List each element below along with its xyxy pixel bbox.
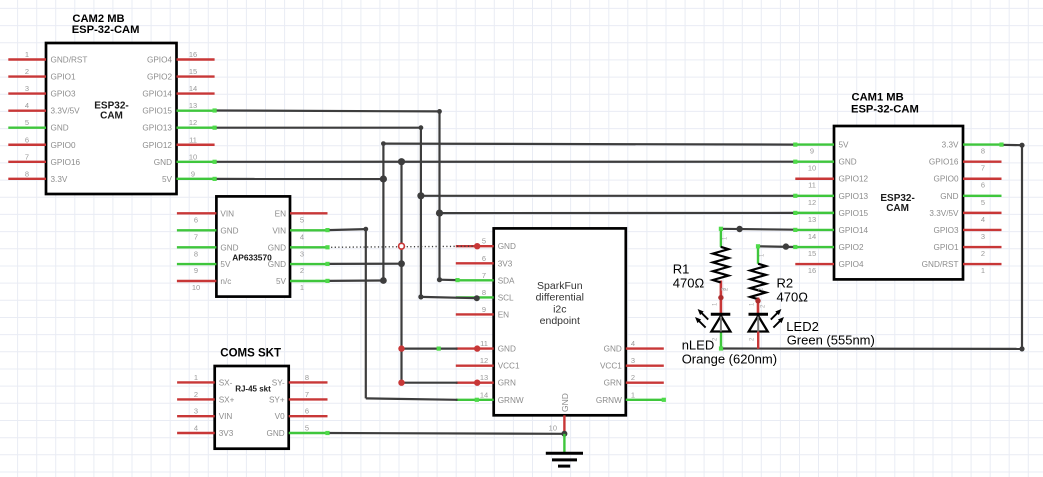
svg-text:GPIO4: GPIO4 [839,260,864,269]
IC body CAM1 ESP32-CAM [834,126,963,279]
svg-text:5V: 5V [220,260,231,269]
svg-text:1: 1 [25,50,29,59]
svg-text:GPIO3: GPIO3 [51,90,76,99]
svg-text:GRN: GRN [498,379,516,388]
svg-text:14: 14 [808,232,816,241]
svg-text:CAM2 MB: CAM2 MB [72,13,124,25]
AP633570 pin 1 5V [276,277,328,292]
svg-text:8: 8 [194,249,198,258]
junction RJ45 GND wire end [561,431,567,437]
svg-text:6: 6 [25,135,29,144]
svg-text:2: 2 [25,67,29,76]
junction R2 wire bend [783,243,789,249]
wire GND net CAM2 GND to CAM1 GND [215,161,796,163]
wire GND net vertical x401 [400,162,402,383]
CAM2 pin 3 GPIO3 [8,84,76,99]
SparkFun pin 5 GND [456,237,516,252]
CAM2 pin 14 GPIO14 [142,84,214,99]
svg-text:3V3: 3V3 [498,259,513,268]
CAM1 pin 15 GPIO2 [795,243,864,258]
node red GND11 right [474,345,480,351]
wire CAM2 5V to node x383 [215,178,384,180]
svg-text:VIN: VIN [219,412,233,421]
RJ-45 skt part label [235,385,271,394]
junction GPIO15-SDA bend [437,277,442,282]
svg-text:CAM: CAM [100,111,123,122]
wire RJ45 GND5 to ground [328,432,565,435]
SparkFun pin 6 3V3 [456,254,513,269]
svg-text:VCC1: VCC1 [600,362,622,371]
CAM2 pin 6 GPIO0 [8,135,76,150]
AP633570 pin 9 5V [177,260,231,275]
RJ45 pin 1 SX- [177,373,233,388]
svg-text:GRN: GRN [604,379,622,388]
junction corner 5V net [381,141,386,146]
LED2 light arrows [771,309,784,328]
svg-text:GPIO16: GPIO16 [929,158,959,167]
svg-text:GPIO0: GPIO0 [51,141,76,150]
svg-text:differential: differential [536,292,584,304]
IC body AP633570 [216,196,290,296]
svg-text:5: 5 [482,237,486,246]
RJ45 pin 8 SY- [272,373,328,388]
svg-text:5: 5 [305,424,309,433]
ground symbol [546,453,583,466]
resistor R2 470 [750,264,766,317]
svg-text:GND/RST: GND/RST [51,56,88,65]
SparkFun part label [536,280,584,327]
junction loop corner top [1019,143,1024,148]
CAM1 pin 5 GND [940,192,1001,207]
junction GPIO13 branch [417,192,424,199]
svg-text:5: 5 [981,198,985,207]
svg-text:1: 1 [981,266,985,275]
AP633570 pin 10 n/c [177,277,231,292]
CAM1 pin 3 GPIO3 [933,226,1001,241]
svg-text:1: 1 [631,390,635,399]
node red GND11 left [398,345,404,351]
svg-text:GND: GND [839,158,857,167]
CAM1 pin 6 GPIO0 [933,175,1001,190]
svg-text:2: 2 [631,373,635,382]
RJ45 pin 7 SY+ [269,390,328,405]
wire ground drop (green) [563,434,565,453]
svg-text:14: 14 [480,390,488,399]
IC body SparkFun differential i2c endpoint U1 [494,228,626,415]
RJ45 pin 4 3V3 [177,424,234,439]
svg-text:n/c: n/c [220,277,231,286]
CAM1 pin 12 GPIO13 [795,192,868,207]
svg-text:15: 15 [189,67,197,76]
value label R1 470 [673,262,705,291]
wire R2 top to CAM1 GPIO2 [758,246,795,263]
svg-text:GPIO12: GPIO12 [142,141,172,150]
svg-text:endpoint: endpoint [540,315,580,327]
svg-text:470Ω: 470Ω [673,276,705,291]
node red GRN13 left [398,380,404,386]
value label LED2 Green 555nm [786,319,875,348]
svg-text:16: 16 [189,50,197,59]
svg-text:4: 4 [981,215,985,224]
value label R2 470 [777,275,809,304]
svg-text:GPIO15: GPIO15 [142,107,172,116]
wire AP 5V1 to 5V net [328,279,384,282]
wire R1 top to CAM1 GPIO14 [721,229,795,247]
CAM2 pin 16 GPIO4 [147,50,215,65]
svg-text:GPIO3: GPIO3 [933,226,958,235]
svg-text:1: 1 [194,373,198,382]
svg-text:7: 7 [25,152,29,161]
svg-text:7: 7 [305,390,309,399]
svg-text:COMS SKT: COMS SKT [220,348,281,360]
svg-text:R1: R1 [673,262,690,277]
SparkFun pin 12 VCC1 [456,356,520,371]
CAM1 pin 1 GND/RST [922,260,1002,275]
svg-text:9: 9 [482,305,486,314]
svg-text:3.3V/5V: 3.3V/5V [929,209,959,218]
svg-text:GND/RST: GND/RST [922,260,959,269]
SparkFun pin 10 GND bottom [549,393,570,434]
svg-text:GPIO13: GPIO13 [839,192,869,201]
svg-text:470Ω: 470Ω [777,289,809,304]
CAM2 pin 1 GND/RST [8,50,87,65]
node green bend GND11 [437,347,441,351]
svg-text:GPIO16: GPIO16 [51,158,81,167]
svg-text:SCL: SCL [498,293,514,302]
svg-text:16: 16 [808,266,816,275]
CAM2 pin 8 3.3V [8,169,68,184]
svg-text:8: 8 [25,169,29,178]
svg-text:GPIO15: GPIO15 [839,209,869,218]
CAM2 part label ESP32-CAM [94,101,128,122]
svg-text:4: 4 [631,339,635,348]
svg-text:13: 13 [808,215,816,224]
svg-text:3: 3 [25,84,29,93]
value label nLED Orange 620nm [682,338,777,367]
svg-text:GND: GND [220,226,238,235]
svg-text:10: 10 [189,152,197,161]
CAM2 pin 10 GND [154,152,215,167]
svg-text:GND: GND [154,158,172,167]
svg-text:4: 4 [25,101,29,110]
svg-text:GND: GND [498,242,516,251]
svg-text:GPIO1: GPIO1 [51,73,76,82]
svg-text:14: 14 [189,84,197,93]
svg-text:6: 6 [194,215,198,224]
svg-text:3.3V: 3.3V [51,175,68,184]
svg-text:V0: V0 [275,412,285,421]
wire AP VIN4 to SparkFun GRNW [328,229,458,400]
CAM2 pin 13 GPIO15 [142,101,214,116]
CAM1 part label ESP32-CAM [880,193,914,214]
junction AP GND2 [398,260,405,267]
svg-text:GPIO14: GPIO14 [839,226,869,235]
SparkFun pin 8 SCL [456,288,514,303]
svg-text:3: 3 [631,356,635,365]
node R2-LED2 joint [755,298,760,303]
green wire end nodes [213,108,1004,435]
svg-text:GND: GND [51,124,69,133]
svg-text:GND: GND [940,192,958,201]
AP633570 part label [232,253,272,263]
svg-text:6: 6 [482,254,486,263]
svg-text:SX-: SX- [219,378,233,387]
SparkFun pin 1 GRNW [596,390,664,405]
svg-text:GPIO13: GPIO13 [142,124,172,133]
CAM1 pin 8 3.3V [942,141,1002,156]
svg-text:GRNW: GRNW [596,396,622,405]
svg-text:7: 7 [482,271,486,280]
wire 5V net vertical x383 [382,144,384,281]
CAM2 pin 7 GPIO16 [8,152,80,167]
svg-text:3: 3 [194,407,198,416]
wire AP GND2 to GND net [328,263,402,265]
wire GND net to SparkFun GRN13 [402,382,458,384]
svg-text:12: 12 [189,118,197,127]
svg-text:GND: GND [604,345,622,354]
junction AP 5V1 end [380,277,387,284]
svg-text:9: 9 [191,169,195,178]
SparkFun pin 4 GND [604,339,664,354]
svg-text:GND: GND [268,243,286,252]
svg-text:ESP-32-CAM: ESP-32-CAM [72,24,140,36]
svg-text:10: 10 [549,423,557,432]
svg-text:6: 6 [305,407,309,416]
resistor R1 470 [713,247,729,317]
svg-text:13: 13 [480,373,488,382]
svg-text:AP633570: AP633570 [232,253,272,263]
svg-text:1: 1 [300,283,304,292]
svg-text:EN: EN [275,209,286,218]
wire 5V net to CAM1 5V [383,144,795,145]
CAM2 pin 15 GPIO2 [147,67,215,82]
SparkFun pin 9 EN [456,305,509,320]
svg-text:3.3V/5V: 3.3V/5V [51,107,81,116]
RJ45 pin 6 V0 [275,407,328,422]
CAM1 pin 4 3.3V/5V [929,209,1001,224]
svg-text:5V: 5V [162,175,173,184]
svg-text:GPIO2: GPIO2 [839,243,864,252]
AP633570 pin 6 VIN [177,209,234,224]
svg-text:2: 2 [981,249,985,258]
svg-text:GRNW: GRNW [498,396,524,405]
svg-text:10: 10 [808,164,816,173]
svg-text:SY-: SY- [272,378,285,387]
svg-text:2: 2 [194,390,198,399]
svg-text:GPIO2: GPIO2 [147,73,172,82]
component CAM2 MB ESP-32-CAM title [72,13,140,36]
svg-text:3: 3 [981,232,985,241]
svg-text:6: 6 [981,181,985,190]
CAM1 pin 9 5V [795,141,849,156]
svg-text:Orange (620nm): Orange (620nm) [682,351,777,366]
CAM2 pin 4 3.3V/5V [8,101,80,116]
svg-text:VIN: VIN [220,209,234,218]
CAM1 pin 11 GPIO12 [795,175,868,190]
SparkFun pin 13 GRN [456,373,516,388]
svg-text:11: 11 [808,181,816,190]
wire CAM2 GPIO13 to bus vertical x421 [215,128,421,297]
svg-text:ESP-32-CAM: ESP-32-CAM [851,104,919,116]
junction corner CAM2 GPIO15 [437,109,442,114]
AP633570 pin 3 GND [268,243,328,258]
svg-text:5: 5 [25,118,29,127]
svg-text:GND: GND [560,393,570,412]
svg-text:i2c: i2c [553,303,566,315]
SparkFun pin 7 SDA [456,271,515,286]
junction R1 wire bend [736,226,742,232]
svg-text:3: 3 [300,249,304,258]
wire GPIO15 bus to SparkFun SDA [440,279,458,282]
CAM1 pin 10 GND [795,158,856,173]
svg-text:12: 12 [808,198,816,207]
svg-text:5: 5 [300,215,304,224]
svg-text:CAM1 MB: CAM1 MB [852,92,904,104]
CAM2 pin 5 GND [8,118,68,133]
IC body CAM2 ESP32-CAM [46,43,177,194]
svg-text:4: 4 [194,424,198,433]
svg-text:GND: GND [266,429,284,438]
wire CAM2 GPIO15 to bus vertical x440 [215,111,440,280]
svg-text:CAM: CAM [886,203,909,214]
node ratsnest red dot at GND5 [474,243,480,249]
svg-text:GND: GND [220,243,238,252]
svg-text:VIN: VIN [272,226,286,235]
CAM1 pin 2 GPIO1 [933,243,1001,258]
svg-text:9: 9 [810,147,814,156]
AP633570 pin 8 GND [177,243,239,258]
svg-text:3.3V: 3.3V [942,141,959,150]
svg-text:5V: 5V [276,277,287,286]
svg-text:VCC1: VCC1 [498,362,520,371]
IC body RJ-45 skt [215,366,289,449]
svg-text:SparkFun: SparkFun [537,280,583,292]
component COMS SKT title [220,348,281,360]
svg-text:7: 7 [981,164,985,173]
RJ45 pin 3 VIN [177,407,232,422]
junction loop corner bottom [1019,346,1024,351]
nLED light arrows [695,309,708,328]
LED LED2 green [749,314,769,349]
svg-text:15: 15 [808,249,816,258]
svg-text:10: 10 [192,283,200,292]
svg-text:EN: EN [498,310,509,319]
svg-text:5V: 5V [839,141,850,150]
wire branch GPIO13 to CAM1 GPIO13 [421,195,795,197]
junction corner CAM2 GPIO13 [419,125,424,130]
svg-text:GPIO1: GPIO1 [933,243,958,252]
svg-text:R2: R2 [777,275,794,290]
wire nLED cathode to CAM1 3.3V loop [721,145,1022,349]
svg-text:GPIO14: GPIO14 [142,90,172,99]
svg-text:11: 11 [480,339,488,348]
AP633570 pin 7 GND [177,226,239,241]
svg-text:SY+: SY+ [269,395,285,404]
svg-text:11: 11 [189,135,197,144]
AP633570 pin 2 GND [268,260,328,275]
svg-text:8: 8 [981,147,985,156]
svg-text:8: 8 [482,288,486,297]
svg-text:SDA: SDA [498,276,515,285]
CAM2 pin 12 GPIO13 [142,118,214,133]
junction GPIO13-SCL bend [418,294,480,301]
CAM2 pin 2 GPIO1 [8,67,76,82]
SparkFun pin 14 GRNW [456,390,524,405]
svg-text:13: 13 [189,101,197,110]
CAM2 pin 11 GPIO12 [142,135,214,150]
svg-text:GND: GND [268,260,286,269]
svg-text:nLED: nLED [682,338,715,353]
svg-text:RJ-45 skt: RJ-45 skt [235,385,271,394]
node R1-nLED joint [718,295,723,300]
svg-text:8: 8 [305,373,309,382]
CAM1 pin 7 GPIO16 [929,158,1002,173]
junction GND net [398,158,405,165]
wire GND net to SparkFun GND11 [402,348,458,350]
SparkFun pin 3 VCC1 [600,356,664,371]
node red GRN13 right [474,380,480,386]
CAM1 pin 14 GPIO14 [795,226,868,241]
svg-text:3V3: 3V3 [219,429,234,438]
wire GPIO13 bus to SparkFun SCL [421,297,477,298]
svg-text:GPIO4: GPIO4 [147,56,172,65]
LED nLED orange [711,314,731,331]
junction GPIO15 branch [436,210,443,217]
svg-text:2: 2 [300,266,304,275]
junction corner AP VIN4 [363,227,368,232]
SparkFun pin 11 GND [456,339,516,354]
AP633570 pin 5 EN [275,209,328,224]
wire ratsnest AP GND3 to SparkFun GND5 (dashed) [328,246,478,247]
CAM1 pin 16 GPIO4 [795,260,864,275]
CAM2 pin 9 5V [162,169,215,184]
svg-text:9: 9 [194,266,198,275]
svg-text:7: 7 [194,232,198,241]
CAM1 pin 13 GPIO15 [795,209,868,224]
AP633570 pin 4 VIN [272,226,327,241]
svg-text:12: 12 [480,356,488,365]
svg-text:SX+: SX+ [219,395,235,404]
SparkFun pin 2 GRN [604,373,664,388]
svg-text:4: 4 [300,232,304,241]
svg-text:Green (555nm): Green (555nm) [787,332,875,347]
svg-text:GPIO0: GPIO0 [933,175,958,184]
RJ45 pin 5 GND [266,424,327,439]
tiny pin marks [713,236,767,341]
svg-text:GND: GND [498,345,516,354]
svg-text:GPIO12: GPIO12 [839,175,869,184]
junction 5V net [380,175,387,182]
component CAM1 MB ESP-32-CAM title [851,92,919,116]
wire branch GPIO15 to CAM1 GPIO15 [440,212,796,214]
node ratsnest red ring [399,243,405,249]
RJ45 pin 2 SX+ [177,390,235,405]
